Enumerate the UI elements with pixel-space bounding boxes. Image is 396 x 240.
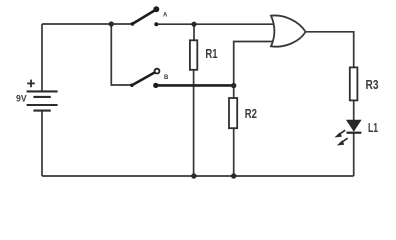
- svg-text:B: B: [164, 75, 169, 81]
- switch B fixed contact dot: [153, 83, 158, 88]
- switch B thick wire to R2 node: [156, 84, 234, 87]
- svg-text:R2: R2: [245, 107, 257, 121]
- wire R1 bottom to rail (crosses B wire, no junction): [193, 70, 195, 176]
- wire battery bottom to bottom rail: [41, 111, 43, 176]
- battery plus sign: [27, 80, 35, 88]
- resistor R1: [190, 40, 197, 70]
- node junction top rail to B branch: [109, 21, 114, 26]
- switch B lever: [132, 73, 155, 86]
- LED L1 emission arrow 2: [337, 138, 347, 145]
- svg-text:9V: 9V: [16, 93, 27, 104]
- switch A: [131, 6, 168, 26]
- wire OR gate output to R3: [305, 32, 353, 68]
- switch A lever tip dot: [153, 6, 159, 12]
- switch B: [130, 69, 169, 88]
- wire R1 top: [193, 24, 195, 40]
- node junction R2 / bottom rail: [231, 173, 236, 178]
- node junction A-line / R1: [191, 22, 196, 27]
- LED L1 triangle: [347, 120, 361, 131]
- wire R2 bottom to rail: [233, 128, 235, 176]
- wire LED to bottom rail: [353, 133, 355, 176]
- OR gate U1: [271, 15, 306, 46]
- resistor R2: [229, 98, 237, 128]
- LED L1 emission arrow 1: [335, 130, 345, 137]
- wire junction drop to switch B: [111, 24, 132, 85]
- svg-text:A: A: [163, 13, 168, 19]
- LED L1 cathode bar: [347, 132, 362, 134]
- wire R2 top: [233, 86, 235, 98]
- wire top-left from battery to switch A pivot: [42, 23, 132, 25]
- switch A fixed contact dot: [154, 22, 158, 26]
- switch A pivot dot: [131, 22, 135, 26]
- node junction B-line / R2 / gate input 2: [231, 83, 236, 88]
- wire R3 to LED: [353, 100, 355, 120]
- resistor R3: [350, 67, 358, 100]
- wire bottom rail: [42, 175, 354, 177]
- battery 9V: [27, 91, 58, 110]
- svg-text:R3: R3: [366, 78, 379, 92]
- svg-text:R1: R1: [205, 47, 217, 61]
- switch A lever: [132, 10, 156, 24]
- switch B lever tip ring: [155, 69, 160, 74]
- wire left vertical battery top: [41, 24, 43, 91]
- wire OR gate input 2 from R2 node: [234, 42, 273, 86]
- node junction R1 / bottom rail: [191, 173, 196, 178]
- switch B pivot dot: [130, 83, 134, 87]
- wire node A: switch A contact to OR gate input 1: [156, 23, 273, 25]
- svg-text:L1: L1: [368, 121, 378, 135]
